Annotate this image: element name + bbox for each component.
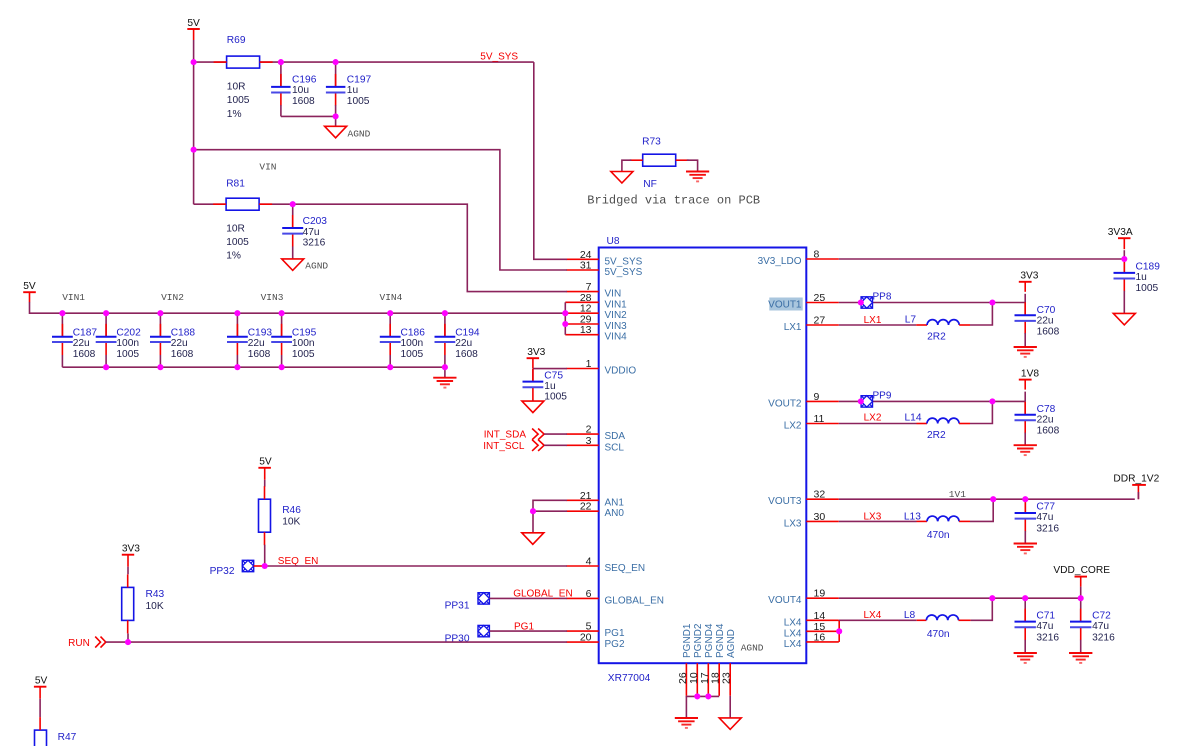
- svg-text:32: 32: [814, 489, 826, 501]
- svg-text:100n: 100n: [401, 338, 424, 349]
- svg-text:C188: C188: [171, 328, 196, 339]
- svg-text:5V: 5V: [35, 676, 48, 687]
- svg-text:INT_SCL: INT_SCL: [483, 441, 525, 452]
- svg-text:3216: 3216: [1092, 632, 1115, 643]
- svg-text:22: 22: [580, 501, 592, 513]
- svg-text:VIN1: VIN1: [605, 299, 628, 310]
- svg-text:1005: 1005: [226, 237, 249, 248]
- svg-text:C71: C71: [1036, 610, 1055, 621]
- svg-text:100n: 100n: [292, 338, 315, 349]
- svg-text:L8: L8: [904, 610, 916, 621]
- svg-text:100n: 100n: [116, 338, 139, 349]
- svg-text:R69: R69: [227, 35, 246, 46]
- svg-text:L7: L7: [905, 314, 917, 325]
- svg-text:NF: NF: [643, 179, 657, 190]
- svg-text:3V3_LDO: 3V3_LDO: [758, 256, 802, 267]
- svg-text:VDD_CORE: VDD_CORE: [1053, 565, 1110, 576]
- svg-text:PGND4: PGND4: [715, 623, 726, 658]
- svg-text:3V3A: 3V3A: [1108, 227, 1133, 238]
- svg-text:VIN3: VIN3: [605, 321, 628, 332]
- svg-text:1005: 1005: [116, 349, 139, 360]
- svg-text:6: 6: [586, 588, 592, 600]
- svg-text:R43: R43: [146, 589, 165, 600]
- svg-text:1608: 1608: [292, 96, 315, 107]
- svg-text:31: 31: [580, 260, 592, 272]
- svg-text:VOUT1: VOUT1: [768, 300, 802, 311]
- svg-text:1005: 1005: [401, 349, 424, 360]
- svg-text:Bridged via trace on PCB: Bridged via trace on PCB: [587, 193, 760, 207]
- svg-text:22u: 22u: [248, 338, 265, 349]
- svg-text:VIN: VIN: [605, 289, 622, 300]
- svg-text:LX2: LX2: [784, 421, 802, 432]
- svg-text:10R: 10R: [226, 224, 245, 235]
- svg-text:22u: 22u: [171, 338, 188, 349]
- svg-text:AGND: AGND: [305, 261, 328, 272]
- svg-text:C187: C187: [73, 328, 98, 339]
- svg-text:47u: 47u: [303, 227, 320, 238]
- svg-text:C195: C195: [292, 328, 317, 339]
- svg-text:VOUT3: VOUT3: [768, 496, 802, 507]
- svg-text:1005: 1005: [1136, 283, 1159, 294]
- svg-text:AGND: AGND: [348, 129, 371, 140]
- svg-text:1608: 1608: [171, 349, 194, 360]
- svg-text:C194: C194: [455, 328, 480, 339]
- svg-text:23: 23: [721, 672, 733, 684]
- svg-text:3216: 3216: [303, 238, 326, 249]
- svg-text:1005: 1005: [227, 95, 250, 106]
- svg-text:1: 1: [586, 358, 592, 370]
- svg-text:PP8: PP8: [873, 292, 892, 303]
- svg-text:5V: 5V: [23, 281, 36, 292]
- svg-text:1%: 1%: [227, 109, 242, 120]
- svg-text:INT_SDA: INT_SDA: [484, 429, 527, 440]
- svg-text:VIN: VIN: [259, 162, 276, 173]
- svg-text:10u: 10u: [292, 85, 309, 96]
- svg-text:GLOBAL_EN: GLOBAL_EN: [513, 589, 572, 600]
- svg-text:R47: R47: [58, 732, 77, 743]
- svg-text:4: 4: [586, 556, 592, 568]
- svg-text:22u: 22u: [1037, 415, 1054, 426]
- svg-text:1u: 1u: [544, 381, 555, 392]
- svg-text:1608: 1608: [1037, 425, 1060, 436]
- svg-text:22u: 22u: [1037, 315, 1054, 326]
- svg-text:R81: R81: [226, 179, 245, 190]
- svg-text:RUN: RUN: [68, 638, 90, 649]
- svg-text:LX1: LX1: [864, 315, 882, 326]
- svg-text:16: 16: [814, 631, 826, 643]
- svg-text:1005: 1005: [292, 349, 315, 360]
- svg-text:22u: 22u: [455, 338, 472, 349]
- svg-text:470n: 470n: [927, 530, 950, 541]
- svg-text:C196: C196: [292, 75, 317, 86]
- svg-text:1V8: 1V8: [1021, 368, 1039, 379]
- svg-text:SDA: SDA: [605, 431, 626, 442]
- svg-text:30: 30: [814, 511, 826, 523]
- svg-text:1%: 1%: [226, 250, 241, 261]
- svg-text:C193: C193: [248, 328, 273, 339]
- svg-text:VIN4: VIN4: [380, 292, 403, 303]
- svg-text:C75: C75: [544, 370, 563, 381]
- svg-text:5V: 5V: [187, 18, 200, 29]
- svg-text:PP31: PP31: [445, 601, 470, 612]
- svg-text:1005: 1005: [544, 392, 567, 403]
- svg-text:3216: 3216: [1036, 632, 1059, 643]
- svg-text:47u: 47u: [1036, 512, 1053, 523]
- svg-text:13: 13: [580, 324, 592, 336]
- svg-text:1005: 1005: [347, 96, 370, 107]
- svg-text:LX4: LX4: [784, 628, 802, 639]
- svg-text:5V_SYS: 5V_SYS: [605, 267, 643, 278]
- svg-text:AN1: AN1: [605, 497, 625, 508]
- svg-text:PG1: PG1: [605, 628, 625, 639]
- svg-text:1608: 1608: [248, 349, 271, 360]
- svg-text:LX4: LX4: [784, 617, 802, 628]
- svg-text:3V3: 3V3: [527, 347, 545, 358]
- svg-text:VIN4: VIN4: [605, 332, 628, 343]
- svg-text:1V1: 1V1: [949, 489, 966, 500]
- svg-text:VDDIO: VDDIO: [605, 366, 637, 377]
- svg-text:8: 8: [814, 249, 820, 261]
- svg-text:VOUT2: VOUT2: [768, 398, 802, 409]
- svg-text:2: 2: [586, 424, 592, 436]
- svg-text:10K: 10K: [282, 517, 300, 528]
- svg-text:C77: C77: [1036, 502, 1055, 513]
- svg-text:1u: 1u: [347, 85, 358, 96]
- svg-text:C186: C186: [401, 328, 426, 339]
- svg-text:47u: 47u: [1036, 621, 1053, 632]
- svg-text:5V_SYS: 5V_SYS: [605, 256, 643, 267]
- svg-text:U8: U8: [607, 236, 620, 247]
- svg-text:10K: 10K: [146, 601, 164, 612]
- svg-text:AN0: AN0: [605, 508, 625, 519]
- svg-text:20: 20: [580, 632, 592, 644]
- svg-text:LX3: LX3: [784, 518, 802, 529]
- svg-text:VIN2: VIN2: [161, 292, 184, 303]
- svg-text:9: 9: [814, 391, 820, 403]
- svg-text:22u: 22u: [73, 338, 90, 349]
- svg-text:10R: 10R: [227, 81, 246, 92]
- svg-text:PG2: PG2: [605, 639, 625, 650]
- svg-text:5V_SYS: 5V_SYS: [480, 52, 518, 63]
- svg-text:PG1: PG1: [514, 622, 534, 633]
- svg-text:PGND2: PGND2: [693, 623, 704, 658]
- svg-text:R46: R46: [282, 505, 301, 516]
- svg-text:3216: 3216: [1036, 523, 1059, 534]
- svg-text:VOUT4: VOUT4: [768, 595, 802, 606]
- svg-text:R73: R73: [642, 136, 661, 147]
- svg-text:SEQ_EN: SEQ_EN: [605, 563, 646, 574]
- svg-text:DDR_1V2: DDR_1V2: [1113, 474, 1159, 485]
- svg-text:C197: C197: [347, 75, 372, 86]
- svg-text:LX4: LX4: [864, 610, 882, 621]
- svg-text:3: 3: [586, 435, 592, 447]
- svg-text:C203: C203: [303, 216, 328, 227]
- svg-text:VIN2: VIN2: [605, 310, 628, 321]
- svg-text:VIN3: VIN3: [261, 292, 284, 303]
- svg-text:5V: 5V: [259, 457, 272, 468]
- svg-text:C202: C202: [116, 328, 141, 339]
- svg-text:1608: 1608: [455, 349, 478, 360]
- svg-text:VIN1: VIN1: [62, 292, 85, 303]
- svg-text:PP9: PP9: [873, 390, 892, 401]
- svg-text:1608: 1608: [73, 349, 96, 360]
- svg-text:L13: L13: [904, 511, 921, 522]
- svg-text:25: 25: [814, 292, 826, 304]
- svg-text:PP32: PP32: [210, 566, 235, 577]
- svg-text:2R2: 2R2: [927, 430, 946, 441]
- svg-text:3V3: 3V3: [1020, 271, 1038, 282]
- svg-text:27: 27: [814, 315, 826, 327]
- svg-text:LX1: LX1: [784, 322, 802, 333]
- svg-text:PGND1: PGND1: [682, 623, 693, 658]
- svg-text:470n: 470n: [927, 629, 950, 640]
- svg-text:3V3: 3V3: [122, 544, 140, 555]
- svg-text:SCL: SCL: [605, 442, 625, 453]
- svg-text:47u: 47u: [1092, 621, 1109, 632]
- svg-text:LX4: LX4: [784, 639, 802, 650]
- svg-text:AGND: AGND: [726, 629, 737, 658]
- svg-text:LX3: LX3: [864, 511, 882, 522]
- svg-text:PGND4: PGND4: [704, 623, 715, 658]
- svg-text:AGND: AGND: [741, 643, 764, 654]
- svg-text:LX2: LX2: [864, 413, 882, 424]
- svg-text:2R2: 2R2: [927, 331, 946, 342]
- svg-text:19: 19: [814, 588, 826, 600]
- svg-text:XR77004: XR77004: [608, 673, 651, 684]
- svg-text:1608: 1608: [1037, 326, 1060, 337]
- svg-text:1u: 1u: [1136, 272, 1147, 283]
- svg-text:C189: C189: [1136, 262, 1161, 273]
- svg-text:C72: C72: [1092, 610, 1111, 621]
- svg-text:11: 11: [814, 413, 825, 425]
- svg-text:C78: C78: [1037, 404, 1056, 415]
- svg-text:L14: L14: [905, 412, 922, 423]
- svg-text:GLOBAL_EN: GLOBAL_EN: [605, 595, 664, 606]
